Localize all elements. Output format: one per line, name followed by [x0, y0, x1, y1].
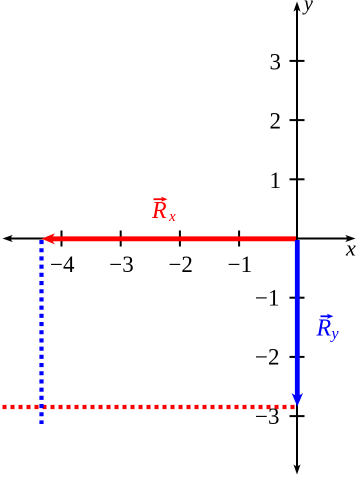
svg-text:R: R — [316, 315, 332, 341]
label vec Rx (red) — [151, 197, 176, 225]
svg-text:y: y — [330, 326, 340, 343]
svg-text:−2: −2 — [168, 252, 192, 277]
y-axis tick -3 — [290, 415, 305, 417]
x-axis left arrowhead — [3, 235, 13, 242]
x-axis tick -4 — [61, 231, 63, 247]
red dotted projection line (y = -2.85) — [3, 405, 296, 409]
x-axis tick -2 — [179, 231, 181, 247]
svg-text:R: R — [151, 198, 167, 224]
y-axis tick -2 — [290, 356, 305, 358]
svg-text:x: x — [168, 209, 176, 225]
y-axis tick 1 — [290, 178, 305, 180]
svg-text:1: 1 — [270, 168, 282, 193]
vector Rx (red, along -x) — [52, 236, 296, 241]
svg-text:−4: −4 — [50, 252, 75, 277]
y-axis top arrowhead — [293, 2, 300, 12]
svg-text:−3: −3 — [255, 404, 279, 429]
x-axis tick -3 — [120, 231, 122, 247]
x-axis right arrowhead — [345, 235, 355, 242]
vector Rx arrowhead — [42, 233, 56, 244]
y-axis tick -1 — [290, 297, 305, 299]
y-axis tick 2 — [290, 119, 305, 121]
svg-text:−1: −1 — [255, 286, 279, 311]
svg-text:y: y — [302, 0, 313, 15]
svg-text:−3: −3 — [109, 252, 133, 277]
y-axis — [296, 7, 298, 469]
svg-text:−2: −2 — [255, 345, 279, 370]
x-axis — [8, 238, 350, 240]
vector Ry (blue, along -y) — [295, 240, 300, 397]
blue dotted projection line (x = -4.32) — [39, 240, 43, 424]
svg-text:3: 3 — [270, 50, 282, 75]
svg-text:x: x — [345, 236, 356, 261]
svg-text:2: 2 — [270, 109, 282, 134]
vector Ry arrowhead — [292, 393, 303, 407]
x-axis tick -1 — [238, 231, 240, 247]
label vec Ry (blue) — [316, 314, 340, 343]
svg-text:−1: −1 — [228, 252, 252, 277]
y-axis bottom arrowhead — [293, 464, 300, 474]
y-axis tick 3 — [290, 60, 305, 62]
